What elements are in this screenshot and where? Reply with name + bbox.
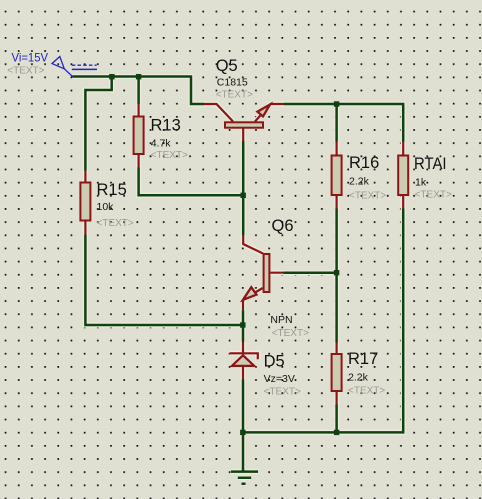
svg-text:RTAI: RTAI [414, 155, 447, 173]
svg-text:Q5: Q5 [216, 57, 238, 75]
svg-text:Q6: Q6 [272, 217, 294, 235]
svg-text:D5: D5 [264, 352, 285, 370]
svg-text:R15: R15 [97, 181, 127, 199]
svg-text:1k: 1k [415, 177, 427, 189]
svg-text:10k: 10k [97, 201, 115, 213]
svg-text:R16: R16 [349, 154, 379, 172]
svg-text:C1815: C1815 [217, 77, 248, 89]
svg-text:<TEXT>: <TEXT> [415, 190, 452, 201]
svg-text:<TEXT>: <TEXT> [97, 218, 134, 229]
svg-text:<TEXT>: <TEXT> [216, 90, 253, 101]
svg-text:<TEXT>: <TEXT> [272, 328, 309, 339]
svg-text:<TEXT>: <TEXT> [348, 386, 385, 397]
svg-text:Vz=3V: Vz=3V [264, 373, 295, 385]
svg-text:4.7k: 4.7k [151, 138, 172, 150]
svg-text:<TEXT>: <TEXT> [151, 150, 188, 161]
svg-text:<TEXT>: <TEXT> [264, 386, 301, 397]
svg-text:R13: R13 [151, 117, 181, 135]
svg-text:2.2k: 2.2k [349, 176, 370, 188]
svg-text:2.2k: 2.2k [348, 372, 369, 384]
svg-text:<TEXT>: <TEXT> [7, 66, 44, 77]
svg-text:NPN: NPN [270, 314, 292, 326]
svg-text:Vi=15V: Vi=15V [12, 51, 49, 65]
svg-text:<TEXT>: <TEXT> [349, 190, 386, 201]
svg-text:R17: R17 [348, 350, 378, 368]
